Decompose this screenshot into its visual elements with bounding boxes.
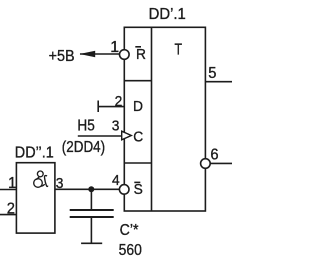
svg-text:H5: H5 xyxy=(77,118,94,135)
svg-text:2: 2 xyxy=(7,200,15,218)
svg-text:1: 1 xyxy=(8,175,16,192)
svg-text:D: D xyxy=(133,99,143,116)
svg-text:R: R xyxy=(136,47,146,64)
svg-text:C: C xyxy=(133,129,143,146)
svg-text:1: 1 xyxy=(110,39,119,56)
svg-text:3: 3 xyxy=(56,176,64,193)
svg-text:4: 4 xyxy=(112,172,120,189)
svg-text:(2DD4): (2DD4) xyxy=(62,139,105,156)
svg-text:DD’.1: DD’.1 xyxy=(149,5,186,23)
svg-text:S: S xyxy=(134,182,143,199)
svg-text:+5B: +5B xyxy=(49,47,75,65)
svg-text:C’*: C’* xyxy=(120,221,139,239)
svg-text:2: 2 xyxy=(115,93,123,110)
svg-text:DD’’.1: DD’’.1 xyxy=(15,144,54,162)
svg-text:3: 3 xyxy=(112,118,120,135)
svg-text:5: 5 xyxy=(208,65,216,83)
svg-text:T: T xyxy=(175,41,183,59)
svg-text:560: 560 xyxy=(119,241,142,259)
svg-text:6: 6 xyxy=(210,146,218,164)
